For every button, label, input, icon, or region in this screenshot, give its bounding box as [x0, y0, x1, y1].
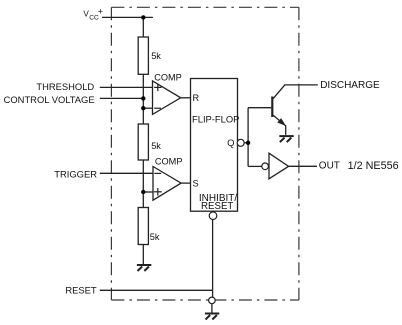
svg-text:S: S: [193, 178, 199, 188]
svg-text:5k: 5k: [151, 141, 161, 151]
svg-text:CONTROL VOLTAGE: CONTROL VOLTAGE: [4, 94, 95, 105]
svg-text:THRESHOLD: THRESHOLD: [36, 81, 94, 92]
svg-text:COMP: COMP: [155, 157, 183, 167]
svg-text:5k: 5k: [150, 232, 160, 242]
svg-text:FLIP-FLOP: FLIP-FLOP: [192, 114, 239, 125]
svg-text:DISCHARGE: DISCHARGE: [320, 80, 380, 91]
svg-text:OUT: OUT: [319, 161, 340, 172]
svg-text:5k: 5k: [151, 51, 161, 61]
svg-text:+: +: [98, 7, 103, 17]
svg-text:1/2 NE556: 1/2 NE556: [348, 160, 399, 172]
svg-text:R: R: [193, 93, 200, 103]
svg-text:RESET: RESET: [201, 201, 233, 212]
svg-text:Q: Q: [227, 138, 234, 149]
svg-text:RESET: RESET: [65, 285, 97, 296]
svg-text:COMP: COMP: [154, 72, 182, 82]
svg-text:TRIGGER: TRIGGER: [54, 168, 97, 179]
